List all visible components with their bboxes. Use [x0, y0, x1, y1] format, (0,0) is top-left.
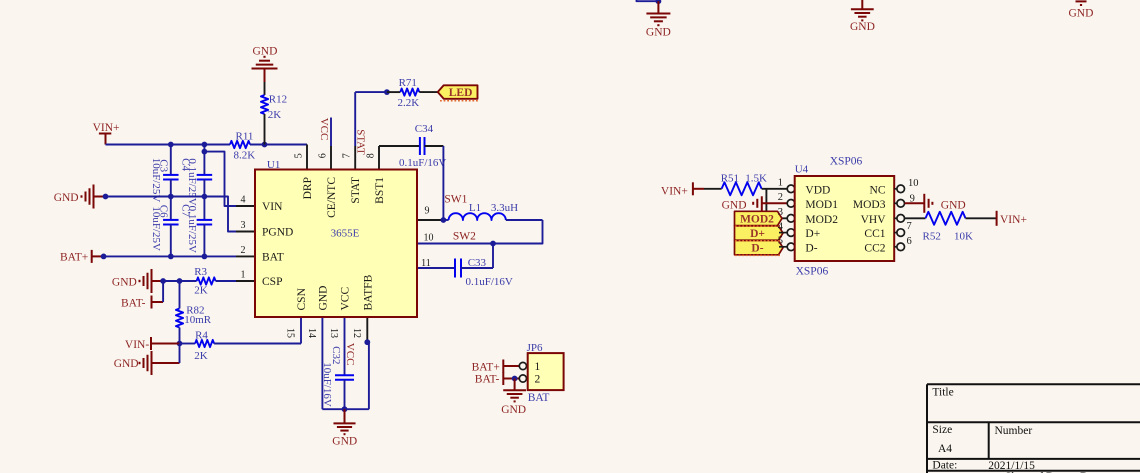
svg-text:XSP06: XSP06 — [830, 155, 863, 167]
svg-text:NC: NC — [870, 184, 886, 196]
svg-text:1: 1 — [778, 178, 783, 189]
svg-text:Size: Size — [932, 424, 952, 436]
svg-text:Number: Number — [995, 425, 1033, 437]
svg-text:CE/NTC: CE/NTC — [326, 177, 338, 218]
svg-text:VIN+: VIN+ — [661, 185, 688, 197]
svg-text:6: 6 — [317, 153, 328, 158]
svg-text:MOD3: MOD3 — [853, 199, 886, 211]
svg-text:GND: GND — [332, 435, 357, 447]
svg-text:0.1uF/16V: 0.1uF/16V — [399, 157, 446, 169]
svg-text:GND: GND — [850, 21, 875, 33]
svg-text:1: 1 — [535, 361, 541, 373]
svg-text:5: 5 — [293, 153, 304, 158]
svg-text:GND: GND — [112, 277, 137, 289]
svg-text:SW2: SW2 — [453, 230, 476, 242]
svg-text:3.3uH: 3.3uH — [491, 202, 518, 214]
svg-text:12: 12 — [351, 328, 362, 338]
svg-text:R51: R51 — [721, 173, 739, 185]
svg-text:R4: R4 — [195, 330, 208, 342]
svg-text:VIN+: VIN+ — [1000, 214, 1027, 226]
svg-text:3: 3 — [241, 220, 246, 231]
svg-text:4: 4 — [778, 221, 784, 232]
svg-text:R3: R3 — [194, 266, 207, 278]
svg-text:0.1uF/25V: 0.1uF/25V — [186, 206, 198, 253]
svg-text:LED: LED — [449, 87, 473, 99]
svg-text:VCC: VCC — [340, 287, 352, 311]
svg-text:2K: 2K — [194, 285, 208, 297]
svg-text:MOD1: MOD1 — [805, 199, 838, 211]
svg-text:U4: U4 — [795, 163, 809, 175]
svg-text:14: 14 — [306, 328, 317, 338]
svg-text:GND: GND — [317, 286, 329, 311]
svg-text:GND: GND — [54, 192, 79, 204]
svg-text:BST1: BST1 — [374, 177, 386, 204]
svg-text:1: 1 — [241, 270, 246, 281]
svg-text:BAT: BAT — [262, 251, 284, 263]
svg-text:JP6: JP6 — [527, 342, 543, 354]
svg-text:VCC: VCC — [344, 343, 356, 366]
svg-text:2021/1/15: 2021/1/15 — [988, 460, 1035, 472]
svg-text:BAT-: BAT- — [121, 298, 146, 310]
svg-text:C33: C33 — [468, 257, 487, 269]
svg-text:10K: 10K — [954, 230, 973, 242]
svg-text:SW1: SW1 — [444, 194, 467, 206]
svg-text:GND: GND — [1069, 7, 1094, 19]
svg-text:0.1uF/25V: 0.1uF/25V — [186, 158, 198, 205]
svg-text:BAT-: BAT- — [475, 374, 500, 386]
svg-text:3655E: 3655E — [331, 228, 360, 240]
svg-text:15: 15 — [285, 328, 296, 338]
svg-text:A4: A4 — [938, 443, 952, 455]
svg-text:CSN: CSN — [296, 287, 308, 310]
svg-text:10mR: 10mR — [184, 314, 212, 326]
svg-text:GND: GND — [501, 404, 526, 416]
svg-text:VCC: VCC — [318, 118, 330, 141]
svg-text:DRP: DRP — [302, 177, 314, 199]
svg-text:GND: GND — [253, 46, 278, 58]
svg-text:10: 10 — [908, 178, 919, 189]
svg-text:10uF/16V: 10uF/16V — [321, 362, 333, 407]
svg-text:BAT+: BAT+ — [60, 251, 88, 263]
svg-text:STAT: STAT — [350, 177, 362, 204]
svg-text:GND: GND — [114, 358, 139, 370]
svg-text:10: 10 — [424, 233, 434, 244]
svg-text:BAT: BAT — [528, 392, 550, 404]
svg-text:D-: D- — [751, 243, 763, 255]
svg-text:GND: GND — [941, 200, 966, 212]
svg-text:R52: R52 — [923, 230, 941, 242]
svg-text:R71: R71 — [399, 77, 417, 89]
svg-text:C34: C34 — [415, 123, 434, 135]
svg-text:XSP06: XSP06 — [796, 266, 829, 278]
svg-text:8.2K: 8.2K — [234, 150, 256, 162]
svg-text:11: 11 — [421, 258, 431, 269]
svg-text:BAT+: BAT+ — [472, 362, 500, 374]
svg-text:R12: R12 — [269, 94, 287, 106]
svg-text:7: 7 — [907, 221, 912, 232]
svg-text:D+: D+ — [805, 228, 820, 240]
svg-text:2: 2 — [535, 374, 541, 386]
svg-text:7: 7 — [342, 153, 353, 158]
svg-text:CC1: CC1 — [864, 228, 885, 240]
svg-text:D-: D- — [805, 242, 817, 254]
svg-text:R11: R11 — [236, 131, 254, 143]
svg-text:D+: D+ — [750, 228, 765, 240]
svg-text:13: 13 — [328, 328, 339, 338]
svg-text:10uF/25V: 10uF/25V — [150, 206, 162, 251]
svg-text:1.5K: 1.5K — [745, 173, 767, 185]
svg-text:2: 2 — [778, 192, 783, 203]
svg-text:8: 8 — [365, 153, 376, 158]
svg-text:PGND: PGND — [262, 227, 293, 239]
svg-text:L1: L1 — [469, 202, 481, 214]
svg-text:U1: U1 — [267, 159, 280, 171]
svg-text:2K: 2K — [194, 350, 208, 362]
svg-text:4: 4 — [241, 195, 246, 206]
svg-text:MOD2: MOD2 — [740, 213, 774, 225]
svg-text:VIN+: VIN+ — [93, 122, 120, 134]
svg-text:CC2: CC2 — [864, 242, 885, 254]
svg-text:0.1uF/16V: 0.1uF/16V — [466, 276, 513, 288]
svg-text:2.2K: 2.2K — [398, 97, 420, 109]
svg-text:Title: Title — [932, 387, 953, 399]
svg-text:5: 5 — [778, 236, 783, 247]
svg-text:GND: GND — [722, 200, 747, 212]
svg-text:2: 2 — [241, 245, 246, 256]
svg-text:CSP: CSP — [262, 276, 282, 288]
svg-text:BATFB: BATFB — [362, 274, 374, 310]
svg-text:VDD: VDD — [805, 184, 830, 196]
svg-text:2K: 2K — [268, 109, 282, 121]
svg-text:STAT: STAT — [355, 129, 367, 155]
svg-text:MOD2: MOD2 — [805, 214, 838, 226]
svg-text:Date:: Date: — [932, 460, 957, 472]
svg-text:VIN-: VIN- — [125, 339, 149, 351]
svg-text:GND: GND — [646, 27, 671, 39]
svg-text:VHV: VHV — [861, 214, 887, 226]
svg-text:9: 9 — [425, 205, 430, 216]
svg-text:VIN: VIN — [262, 201, 283, 213]
svg-text:6: 6 — [907, 236, 912, 247]
svg-text:3: 3 — [778, 207, 783, 218]
